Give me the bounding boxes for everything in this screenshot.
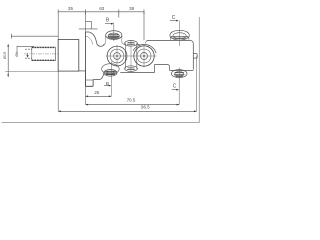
dim 26 arrow right xyxy=(109,95,112,97)
leader C bottom line xyxy=(172,89,177,91)
right bore circle inner xyxy=(141,53,148,60)
spool centerline xyxy=(130,40,132,73)
left bore circle outer xyxy=(107,46,127,66)
spool side left xyxy=(124,43,126,68)
top dimension line xyxy=(58,11,144,13)
rod right inner line xyxy=(54,47,56,61)
leader B top line xyxy=(105,23,112,25)
dim 70.5 arrow right xyxy=(177,104,180,106)
rod thread rect top edge xyxy=(32,47,56,49)
rod thread rect bottom edge xyxy=(32,59,56,61)
body neck S-curve outer xyxy=(89,32,97,45)
top-left boss shoulder xyxy=(105,36,123,39)
right bore circle outer xyxy=(134,46,154,66)
lug bottom edge xyxy=(86,85,94,87)
bottom-right port inner xyxy=(175,72,184,77)
lug seam xyxy=(86,79,94,81)
dim 96.5 arrow left xyxy=(58,110,61,112)
top-left port inner ellipse xyxy=(108,33,119,39)
bore hidden line top xyxy=(25,48,32,50)
barrel top edge seg3 xyxy=(137,43,140,45)
bottom port ellipse xyxy=(102,64,120,74)
bottom port centerline xyxy=(110,62,112,97)
inner small dim arrow xyxy=(27,53,29,57)
right block top corner arc xyxy=(190,40,193,43)
top-right boss side R xyxy=(188,37,190,40)
dim tick left xyxy=(57,9,59,14)
bottom port inner ellipse xyxy=(104,70,117,77)
snout end xyxy=(196,54,198,59)
top-left port boss side L xyxy=(103,36,105,44)
bottom-right centerline/ext xyxy=(178,68,180,105)
snout bottom xyxy=(193,57,197,59)
lug right edge xyxy=(92,80,94,87)
right block top edge xyxy=(147,39,190,41)
svg-text:26: 26 xyxy=(94,90,99,95)
svg-text:Ø19: Ø19 xyxy=(3,52,7,59)
top-right port ellipse xyxy=(170,30,189,40)
leader C top line xyxy=(170,20,177,22)
lug left edge xyxy=(85,71,87,86)
dim 96.5 arrow right xyxy=(194,110,197,112)
left vertical dim line xyxy=(7,44,9,77)
bottom-right port hatch xyxy=(174,73,184,77)
left bore circle inner xyxy=(114,53,121,60)
bottom-left body curve xyxy=(93,73,104,80)
bore hidden line bottom xyxy=(25,57,32,59)
left dim arrow bottom xyxy=(7,74,9,77)
dim tick 3 xyxy=(118,9,120,14)
right bore v-centerline xyxy=(143,45,145,68)
frame border bottom xyxy=(2,122,200,124)
leader B top arrow xyxy=(111,23,114,25)
extension line x=85.5 (body left face, full) xyxy=(85,12,87,105)
svg-text:Ø6: Ø6 xyxy=(15,52,19,57)
left bore circle mid xyxy=(110,49,124,63)
left dim bottom extension xyxy=(5,71,58,73)
spool top hatch xyxy=(127,43,135,45)
body neck top edge xyxy=(86,31,90,33)
tick at rod tip dim xyxy=(10,34,12,39)
barrel top edge seg2 xyxy=(124,43,125,45)
flange-body bottom edge xyxy=(79,70,86,72)
dim tick right xyxy=(143,9,145,14)
svg-text:B: B xyxy=(106,81,109,86)
svg-text:63: 63 xyxy=(99,6,104,11)
rod rect outline xyxy=(32,47,56,61)
body bottom right edge xyxy=(170,70,194,72)
fillet to block edge xyxy=(145,40,147,43)
spool top ellipse xyxy=(125,41,138,47)
frame border right xyxy=(198,17,200,123)
dim 70.5 arrow left xyxy=(86,104,89,106)
body left face edge xyxy=(85,32,87,71)
leader C top arrow xyxy=(176,20,179,22)
snout top xyxy=(193,53,197,55)
svg-text:B: B xyxy=(106,18,110,24)
top-right port hatch2 xyxy=(173,38,186,40)
left dim arrow top xyxy=(7,44,9,47)
rod tip dim line y=36.2 xyxy=(11,35,58,37)
left bore center dot xyxy=(116,55,118,57)
spool bottom ellipse xyxy=(125,66,138,72)
dim 96.5 line xyxy=(58,110,196,112)
right bore circle mid xyxy=(137,49,151,63)
bottom-right port ellipse xyxy=(171,70,187,78)
body neck S-curve inner xyxy=(86,36,93,45)
top-right port centerline xyxy=(179,21,181,46)
svg-text:96.5: 96.5 xyxy=(141,104,150,109)
svg-text:35: 35 xyxy=(68,6,73,11)
svg-text:C: C xyxy=(172,15,176,21)
leader B bottom line xyxy=(104,85,109,87)
axis centerline xyxy=(24,53,58,55)
bores h-centerline xyxy=(106,55,157,57)
extension line x=58.2 (flange left face, full) xyxy=(57,12,59,112)
spool side right xyxy=(136,43,138,68)
rib step vertical xyxy=(154,65,156,73)
extension line x=118.8 xyxy=(118,12,120,18)
svg-text:70.5: 70.5 xyxy=(127,97,136,102)
leader C bottom arrow xyxy=(176,89,179,91)
saddle curve to right block xyxy=(133,44,156,53)
dim 26 arrow left xyxy=(86,95,89,97)
leader B bottom arrow xyxy=(109,85,112,87)
spool bottom hatch xyxy=(127,68,135,70)
snout end extension line xyxy=(196,56,198,111)
step bracket above body xyxy=(86,21,92,29)
extension line x=144 xyxy=(143,12,145,41)
rib top edge xyxy=(155,65,170,71)
top-left port hatch xyxy=(108,35,119,38)
left bore v-centerline xyxy=(116,45,118,67)
top-right port inner line xyxy=(173,33,186,39)
svg-text:C: C xyxy=(173,84,177,90)
dim 70.5 line xyxy=(86,104,180,106)
barrel top edge seg1 xyxy=(97,44,105,46)
top-left port boss side R xyxy=(122,36,124,44)
neck pad top edge xyxy=(79,28,98,30)
top-left port ellipse xyxy=(106,31,122,40)
top-right boss side L xyxy=(169,37,171,40)
right bore center dot xyxy=(143,55,145,57)
body bottom mid edge xyxy=(120,72,154,74)
inner small dim corner xyxy=(17,46,34,53)
dim 26 line xyxy=(86,95,112,97)
body right face xyxy=(192,44,194,70)
bottom port hatch xyxy=(104,71,117,74)
top-left port centerline xyxy=(113,23,115,42)
flange plate rect xyxy=(58,40,79,72)
dim tick 2 xyxy=(85,9,87,14)
svg-text:38: 38 xyxy=(129,6,134,11)
